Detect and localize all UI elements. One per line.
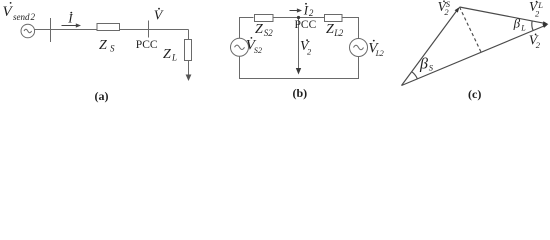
svg-text:PCC: PCC [136, 39, 158, 51]
svg-text:(c): (c) [468, 87, 481, 101]
svg-text:2: 2 [339, 28, 344, 38]
svg-text:(b): (b) [293, 86, 308, 100]
svg-text:(a): (a) [95, 89, 109, 103]
svg-text:Z: Z [163, 47, 171, 62]
svg-text:PCC: PCC [295, 19, 317, 31]
svg-text:2: 2 [268, 28, 273, 38]
svg-text:2: 2 [309, 8, 314, 18]
svg-text:2: 2 [31, 12, 36, 22]
svg-text:V: V [154, 8, 164, 23]
svg-text:2: 2 [444, 7, 449, 17]
svg-text:send: send [13, 12, 30, 22]
svg-text:β: β [513, 15, 521, 30]
svg-text:2: 2 [258, 46, 262, 55]
svg-text:L: L [520, 23, 526, 32]
svg-text:L: L [171, 53, 177, 63]
svg-text:S: S [429, 63, 434, 73]
svg-text:Z: Z [99, 38, 107, 53]
svg-text:2: 2 [380, 49, 384, 58]
svg-text:S: S [110, 44, 115, 54]
svg-text:I: I [67, 11, 73, 26]
svg-text:β: β [419, 56, 428, 73]
svg-text:2: 2 [536, 40, 541, 50]
svg-text:Z: Z [255, 22, 263, 37]
svg-text:Z: Z [326, 22, 334, 37]
svg-text:I: I [303, 3, 309, 18]
